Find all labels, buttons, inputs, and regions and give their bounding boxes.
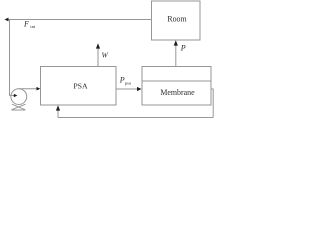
arrowhead pump discharge into PSA (points right) — [37, 87, 41, 91]
svg-text:W: W — [102, 51, 109, 60]
svg-text:Room: Room — [167, 15, 187, 24]
wire membrane retentate out right — [211, 89, 213, 118]
pump stand base — [11, 109, 25, 111]
wire W: PSA top upward — [97, 48, 99, 67]
svg-text:PSA: PSA — [73, 81, 88, 90]
wire recycle riser to PSA bottom — [57, 108, 59, 118]
svg-text:psa: psa — [125, 80, 131, 85]
box Room — [152, 1, 201, 40]
svg-text:Membrane: Membrane — [160, 88, 195, 97]
pump stand leg left — [12, 104, 25, 110]
wire pump inlet — [10, 95, 15, 97]
arrowhead P_psa into Membrane (points right) — [137, 87, 142, 91]
membrane divider line — [142, 80, 211, 82]
pump circle — [11, 89, 27, 105]
wire P: Membrane top to Room bottom — [175, 44, 177, 67]
wire feed down to pump — [9, 20, 11, 96]
arrowhead P into Room (points up) — [174, 40, 178, 45]
svg-text:F: F — [23, 19, 29, 28]
wire P_psa: PSA to Membrane — [116, 88, 140, 90]
box Membrane — [142, 67, 211, 106]
wire recycle bottom line — [58, 117, 213, 119]
box PSA — [41, 67, 117, 106]
wire F_int: Room left to exterior arrow — [6, 19, 152, 21]
svg-text:P: P — [180, 44, 186, 53]
arrowhead pump inlet (points right) — [14, 94, 18, 97]
svg-text:int: int — [30, 24, 36, 29]
pump stand leg right — [12, 104, 26, 110]
arrowhead W (points up) — [96, 43, 100, 48]
wire pump discharge to PSA — [19, 88, 39, 90]
arrowhead recycle into PSA bottom (points up) — [56, 105, 60, 110]
arrowhead F_int (points left) — [5, 18, 9, 22]
